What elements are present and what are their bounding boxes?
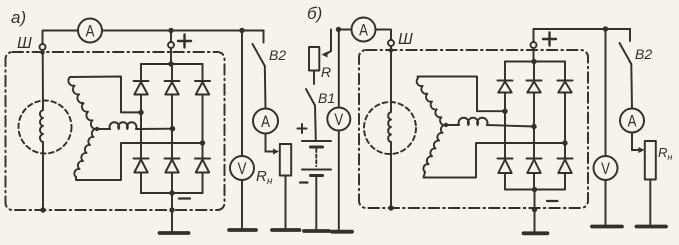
wire: phase 1 to bridge column 1 circuit b xyxy=(418,77,506,112)
wire: load branch stub circuit a xyxy=(263,31,265,43)
wire: − output to chassis ground circuit b xyxy=(534,190,536,234)
wire: bridge − bus circuit b xyxy=(505,189,565,191)
voltmeter V2 (field) circuit b xyxy=(327,108,350,131)
ground: load branch circuit a xyxy=(272,228,300,232)
wire: Ш terminal down to field winding xyxy=(42,50,44,110)
voltmeter V3 circuit b xyxy=(594,156,618,180)
diode VD2 (top row middle) circuit a xyxy=(165,64,180,129)
wire: bridge − bus circuit a xyxy=(141,192,203,194)
node: + rail to bridge junction xyxy=(168,28,173,33)
diode VD6 (bottom row right) circuit a xyxy=(195,143,210,193)
wire: + rail down to + terminal circuit a xyxy=(170,31,172,43)
node: + rail to voltmeter branch circuit b xyxy=(603,26,608,31)
wire: ammeter A3 to terminal Ш circuit b xyxy=(376,30,392,41)
wire: − output to chassis ground circuit a xyxy=(171,193,173,233)
diode VD11 (bottom row middle) circuit b xyxy=(527,127,542,190)
stator phase 1 winding circuit b xyxy=(417,78,446,125)
wire: junction down to voltmeter V2 circuit b xyxy=(338,30,340,108)
switch В2 circuit a xyxy=(253,44,265,66)
battery GB: cell 2 long plate xyxy=(302,169,331,171)
wire: bridge + bus circuit b xyxy=(505,61,565,63)
node: phase 1 / bridge column 1 circuit b xyxy=(502,109,507,114)
stator phase 2 winding circuit b xyxy=(446,124,459,126)
diode VD1 (top row left) circuit a xyxy=(134,64,149,112)
ground: voltmeter V3 branch xyxy=(592,225,622,229)
wire: switch В2 to ammeter A4 circuit b xyxy=(630,64,633,109)
ground: battery branch circuit b xyxy=(304,229,329,233)
node: phase 1 / bridge column 1 xyxy=(138,110,143,115)
wire: phase 2 to bridge column 2 circuit b xyxy=(487,125,534,127)
label − circuit b xyxy=(547,200,558,202)
wire: junction to ammeter A3 circuit b xyxy=(339,29,352,31)
ground: voltmeter V2 branch xyxy=(332,230,352,234)
node: field winding to grounded case circuit b xyxy=(388,205,393,210)
svg-text:R: R xyxy=(321,64,331,80)
wire: voltmeter to ground circuit a xyxy=(241,180,243,230)
node: phase 3 / bridge column 3 circuit b xyxy=(562,140,567,145)
label + circuit b xyxy=(543,33,556,46)
node: − wire through case circuit b xyxy=(532,207,537,212)
wire: phase 3 to bridge column 3 circuit b xyxy=(424,143,566,178)
svg-text:а): а) xyxy=(11,8,26,27)
wire: voltmeter branch circuit b xyxy=(605,29,607,156)
wire: switch В2 to ammeter A2 xyxy=(264,66,267,109)
generator case (dash-dot box) circuit b xyxy=(359,50,588,208)
rheostat R circuit b xyxy=(309,47,319,71)
svg-text:А: А xyxy=(86,22,96,41)
stator phase 1 winding circuit a xyxy=(68,77,97,129)
svg-text:Ш: Ш xyxy=(398,31,413,48)
wire: field winding to case bottom circuit b xyxy=(390,142,392,208)
node: field supply junction circuit b xyxy=(336,27,341,32)
rotor (dashed circle) circuit b xyxy=(364,102,416,154)
wire: bridge + bus circuit a xyxy=(141,63,203,65)
battery GB: cell 1 short plate xyxy=(311,146,323,149)
ammeter A2 (load current) circuit a xyxy=(253,109,278,134)
node: stator star point circuit b xyxy=(444,123,448,127)
node: Ш lead through case circuit b xyxy=(389,48,393,52)
battery GB: dashed link between cells xyxy=(315,149,317,166)
wire: + output rail circuit a xyxy=(102,29,264,31)
svg-text:А: А xyxy=(628,112,638,131)
field winding coil circuit b xyxy=(388,112,391,142)
diode VD3 (top row right) circuit a xyxy=(195,64,210,143)
wire: phase 1 to bridge column 1 xyxy=(70,77,141,113)
node: bridge + bus center xyxy=(168,61,173,66)
diode VD9 (top row right) circuit b xyxy=(558,62,573,144)
terminal Ш circuit a xyxy=(40,44,46,50)
node: phase 2 / bridge column 2 xyxy=(170,126,175,131)
wire: voltmeter V3 to ground xyxy=(605,180,607,226)
voltmeter V1 circuit a xyxy=(230,156,254,180)
wire: terminal Ш up to ammeter circuit a xyxy=(43,31,79,45)
ground: voltmeter branch circuit a xyxy=(229,228,256,232)
node: phase 2 / bridge column 2 circuit b xyxy=(531,124,536,129)
node: bridge + bus center circuit b xyxy=(531,59,536,64)
rheostat Rн circuit b xyxy=(645,141,656,180)
stator phase 3 winding circuit b xyxy=(423,125,446,172)
svg-text:V: V xyxy=(238,160,248,179)
switch В1 circuit b xyxy=(306,89,315,106)
ground: load branch circuit b xyxy=(637,225,667,229)
wire: voltmeter V2 to ground xyxy=(338,131,340,232)
stator phase 2 winding circuit a xyxy=(97,128,110,130)
diode VD5 (bottom row middle) circuit a xyxy=(165,129,180,193)
battery GB: cell 2 short plate xyxy=(311,174,323,177)
svg-text:А: А xyxy=(261,113,271,132)
diode VD7 (top row left) circuit b xyxy=(498,62,513,112)
node: bridge − bus center circuit b xyxy=(532,187,537,192)
rheostat Rн circuit a xyxy=(280,144,291,176)
stator phase 3 winding circuit a xyxy=(74,129,97,177)
diode VD4 (bottom row left) circuit a xyxy=(134,112,149,193)
terminal + circuit a xyxy=(168,42,174,48)
label − battery circuit b xyxy=(300,181,308,183)
wire: switch В1 to battery + xyxy=(314,106,317,142)
node: stator star point circuit a xyxy=(95,127,99,131)
svg-text:В2: В2 xyxy=(269,47,286,63)
diode VD12 (bottom row right) circuit b xyxy=(558,143,573,190)
generator case (dash-dot box) circuit a xyxy=(6,52,225,210)
terminal Ш circuit b xyxy=(388,40,394,46)
wire: ammeter A2 to rheostat wiper (arrow) xyxy=(265,134,267,152)
battery GB: cell 1 long plate xyxy=(302,140,331,142)
wire: + terminal to bridge bus circuit b xyxy=(533,48,535,62)
wire: + terminal to bridge bus circuit a xyxy=(170,48,172,64)
diode VD10 (bottom row left) circuit b xyxy=(498,111,513,189)
label + battery circuit b xyxy=(298,124,307,133)
ammeter A4 (load current) circuit b xyxy=(620,109,644,133)
label − circuit a xyxy=(179,197,190,199)
svg-text:В2: В2 xyxy=(635,46,652,62)
node: − wire through case circuit a xyxy=(169,207,174,212)
wire: + rail down to + terminal circuit b xyxy=(533,29,535,42)
node: phase 3 / bridge column 3 xyxy=(200,140,205,145)
wire: field winding to case bottom xyxy=(42,142,44,210)
ammeter A3 (field current) circuit b xyxy=(352,18,376,42)
svg-text:б): б) xyxy=(307,4,322,23)
node: Ш lead through case circuit a xyxy=(40,50,44,54)
wire: rheostat wiper lead circuit b xyxy=(330,30,332,52)
node: field winding to grounded case xyxy=(40,207,45,212)
wire: voltmeter branch circuit a xyxy=(241,31,243,157)
wire: + rail circuit b xyxy=(534,28,631,30)
wire: phase 2 to bridge column 2 xyxy=(136,128,173,130)
rotor (dashed circle) circuit a xyxy=(19,101,72,154)
svg-text:Ш: Ш xyxy=(17,35,32,52)
wire: Ш terminal down to field winding circuit b xyxy=(390,46,392,112)
field winding coil circuit a xyxy=(40,110,43,142)
ammeter A1 (field/output) circuit a xyxy=(78,19,102,43)
diode VD8 (top row middle) circuit b xyxy=(527,62,542,127)
svg-text:V: V xyxy=(334,111,344,130)
wire: rheostat R to switch В1 xyxy=(313,71,315,85)
wire: rheostat to ground circuit a xyxy=(285,176,287,230)
label + circuit a xyxy=(178,35,191,48)
wire: battery − to ground xyxy=(315,176,317,231)
wire: phase 3 to bridge column 3 xyxy=(76,143,203,180)
ground: generator − circuit a xyxy=(160,231,189,235)
svg-text:А: А xyxy=(359,21,369,40)
ground: generator − circuit b xyxy=(524,231,548,235)
wire: rheostat Rн to ground circuit b xyxy=(649,180,651,227)
svg-text:В1: В1 xyxy=(318,90,335,106)
wire: ammeter A4 to rheostat wiper (arrow) circuit b xyxy=(631,133,633,151)
node: bridge − bus center xyxy=(169,190,174,195)
svg-text:V: V xyxy=(601,160,611,179)
terminal + circuit b xyxy=(531,42,537,48)
wire: load branch stub circuit b xyxy=(629,29,631,41)
node: + rail to voltmeter branch xyxy=(239,28,244,33)
switch В2 circuit b xyxy=(620,43,632,64)
